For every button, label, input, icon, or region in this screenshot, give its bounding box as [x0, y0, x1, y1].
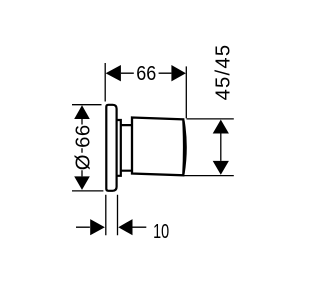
svg-text:10: 10: [153, 221, 169, 243]
svg-text:Ø 66: Ø 66: [72, 125, 94, 171]
svg-text:66: 66: [136, 63, 156, 85]
svg-text:45/45: 45/45: [213, 45, 235, 101]
